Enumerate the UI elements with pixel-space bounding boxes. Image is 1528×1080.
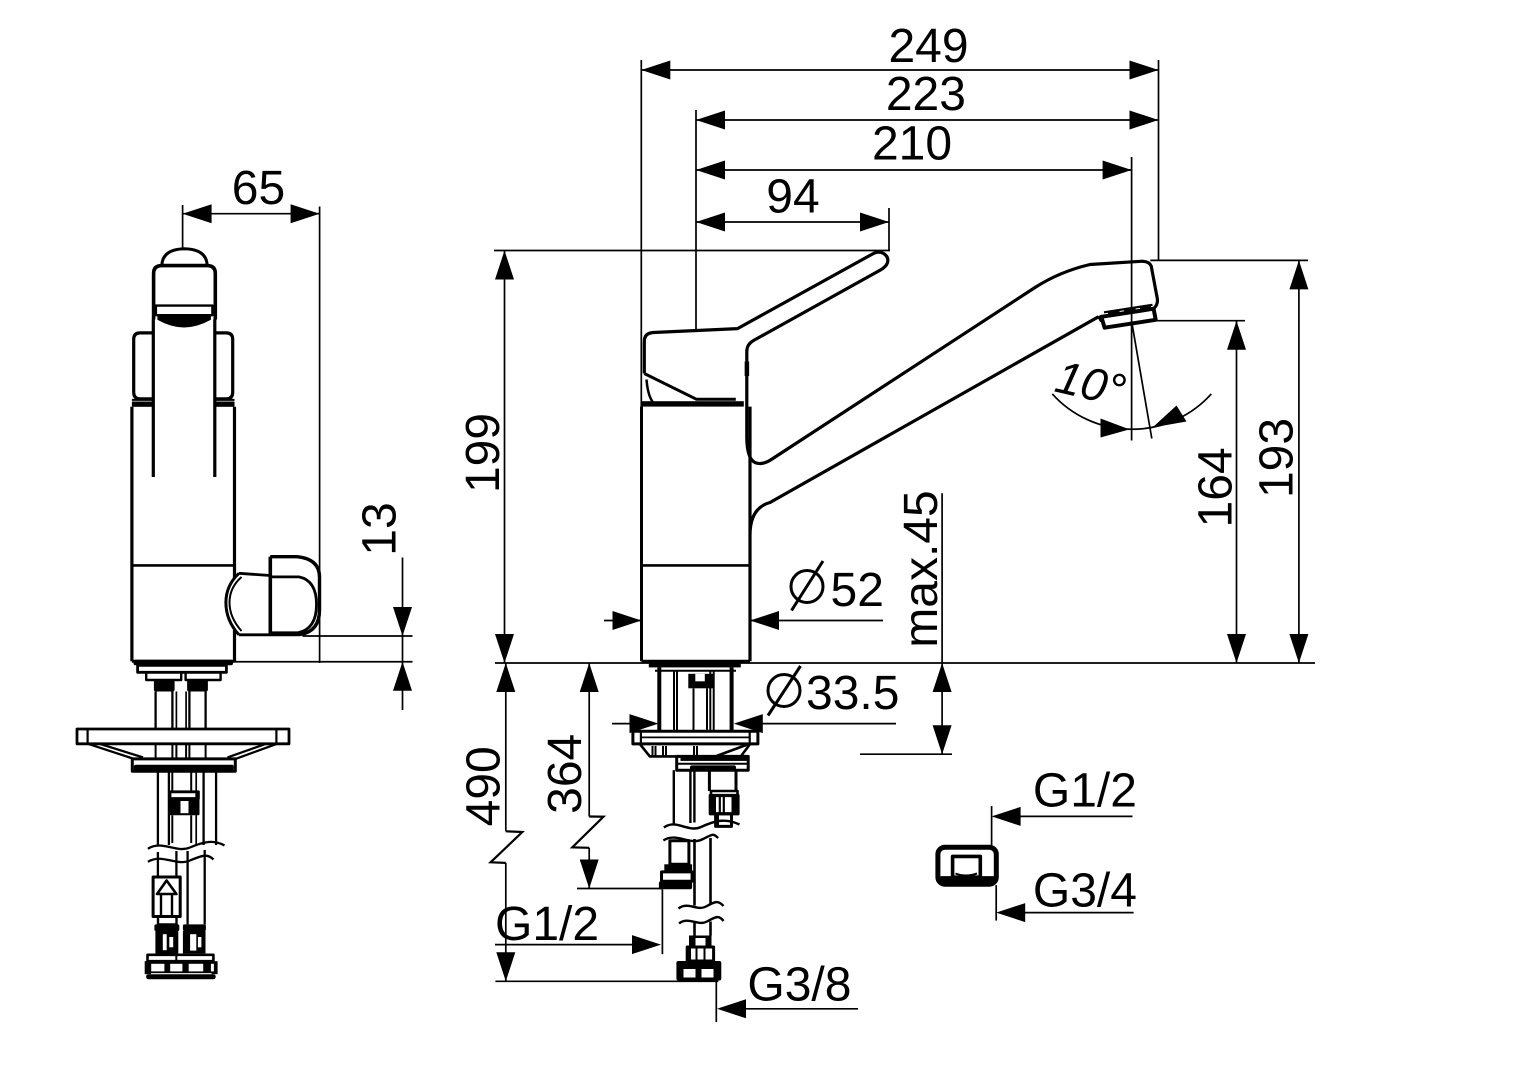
svg-text:223: 223 xyxy=(886,68,966,121)
svg-text:210: 210 xyxy=(872,118,952,171)
svg-text:199: 199 xyxy=(457,413,510,493)
svg-text:193: 193 xyxy=(1251,418,1304,498)
svg-text:65: 65 xyxy=(232,162,285,215)
svg-text:13: 13 xyxy=(353,502,406,555)
svg-text:94: 94 xyxy=(766,171,819,224)
svg-text:364: 364 xyxy=(539,734,592,814)
svg-text:G3/4: G3/4 xyxy=(1033,865,1137,918)
svg-text:max.45: max.45 xyxy=(895,490,948,647)
svg-text:33.5: 33.5 xyxy=(806,667,899,720)
svg-text:490: 490 xyxy=(458,746,511,826)
svg-text:52: 52 xyxy=(831,564,884,617)
svg-text:164: 164 xyxy=(1190,447,1243,527)
svg-text:G3/8: G3/8 xyxy=(747,959,851,1012)
svg-text:G1/2: G1/2 xyxy=(1033,765,1137,818)
svg-text:249: 249 xyxy=(888,20,968,73)
svg-text:G1/2: G1/2 xyxy=(495,898,599,951)
